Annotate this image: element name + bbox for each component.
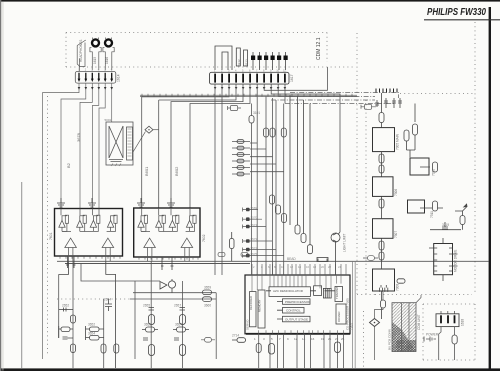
svg-text:3652: 3652 (88, 323, 95, 327)
svg-text:B602: B602 (174, 166, 179, 176)
svg-text:14: 14 (302, 337, 306, 341)
svg-text:7311: 7311 (430, 211, 434, 218)
svg-text:DECODER: DECODER (249, 296, 253, 310)
svg-text:5: 5 (104, 68, 106, 72)
svg-text:9: 9 (287, 337, 289, 341)
svg-text:7602: 7602 (202, 234, 206, 242)
svg-text:7306: 7306 (394, 189, 398, 196)
svg-text:MEMORY: MEMORY (258, 299, 262, 312)
svg-text:1616: 1616 (105, 57, 109, 64)
svg-text:OUTPUT STAGE: OUTPUT STAGE (285, 317, 308, 321)
svg-text:6: 6 (111, 68, 113, 72)
svg-text:4: 4 (98, 68, 100, 72)
svg-text:CONTROL: CONTROL (286, 309, 301, 313)
svg-text:5: 5 (271, 337, 273, 341)
svg-text:2652: 2652 (62, 304, 69, 308)
svg-text:BU PCB CONN: BU PCB CONN (388, 329, 392, 350)
svg-text:3219: 3219 (442, 223, 449, 227)
svg-text:POWER: POWER (426, 333, 439, 337)
svg-text:1617: 1617 (290, 74, 294, 82)
svg-text:TRANSM: TRANSM (335, 287, 339, 299)
svg-text:2: 2 (85, 68, 87, 72)
svg-text:7601: 7601 (49, 232, 53, 240)
svg-text:6312: 6312 (237, 59, 241, 66)
svg-text:16: 16 (311, 337, 315, 341)
svg-text:3: 3 (91, 68, 93, 72)
svg-text:7205: 7205 (350, 323, 354, 330)
svg-text:B601: B601 (144, 166, 149, 176)
svg-text:2: 2 (253, 265, 255, 269)
svg-text:2655: 2655 (143, 304, 150, 308)
svg-text:25: 25 (341, 337, 345, 341)
svg-text:3659: 3659 (204, 286, 211, 290)
svg-text:B2: B2 (66, 162, 71, 168)
svg-text:3678: 3678 (76, 132, 81, 142)
svg-text:20: 20 (321, 265, 324, 269)
svg-text:HEADPHONES: HEADPHONES (79, 40, 83, 62)
svg-text:1614: 1614 (117, 74, 121, 82)
svg-text:PHILIPS FW330: PHILIPS FW330 (427, 7, 486, 18)
svg-text:6313: 6313 (245, 59, 249, 66)
svg-text:16: 16 (306, 265, 309, 269)
svg-text:3655: 3655 (144, 323, 151, 327)
svg-text:23: 23 (335, 337, 339, 341)
svg-text:CDM 12.1: CDM 12.1 (316, 37, 322, 60)
svg-text:7: 7 (279, 337, 281, 341)
svg-text:AZC DEMODULATOR: AZC DEMODULATOR (273, 289, 304, 293)
svg-text:7308: 7308 (396, 284, 400, 291)
svg-text:2654: 2654 (104, 298, 111, 302)
svg-text:MOTOR DRIVE: MOTOR DRIVE (454, 250, 458, 272)
svg-text:2657: 2657 (174, 304, 181, 308)
svg-text:3657: 3657 (175, 323, 182, 327)
svg-text:1: 1 (254, 337, 256, 341)
svg-text:BEAD: BEAD (287, 257, 296, 261)
svg-text:7310: 7310 (432, 169, 436, 176)
svg-text:1618: 1618 (461, 319, 465, 326)
svg-text:7307: 7307 (394, 231, 398, 238)
svg-text:3654: 3654 (88, 332, 95, 336)
svg-text:CDM UNIT: CDM UNIT (417, 314, 421, 330)
svg-text:PREPROCESSOR: PREPROCESSOR (285, 300, 311, 304)
svg-text:LIGHT LIMIT: LIGHT LIMIT (343, 234, 347, 252)
svg-text:DRIVER: DRIVER (337, 311, 341, 322)
svg-text:3: 3 (263, 337, 265, 341)
svg-text:2714: 2714 (232, 334, 239, 338)
svg-text:7305 MAIN: 7305 MAIN (396, 133, 400, 150)
svg-text:SERVO: SERVO (246, 319, 250, 330)
svg-text:1615: 1615 (93, 57, 97, 64)
svg-text:3101: 3101 (253, 111, 260, 115)
svg-text:21: 21 (328, 337, 332, 341)
svg-text:5001: 5001 (105, 118, 112, 122)
svg-text:3660: 3660 (204, 304, 211, 308)
svg-text:12: 12 (294, 337, 298, 341)
svg-text:19: 19 (321, 337, 325, 341)
